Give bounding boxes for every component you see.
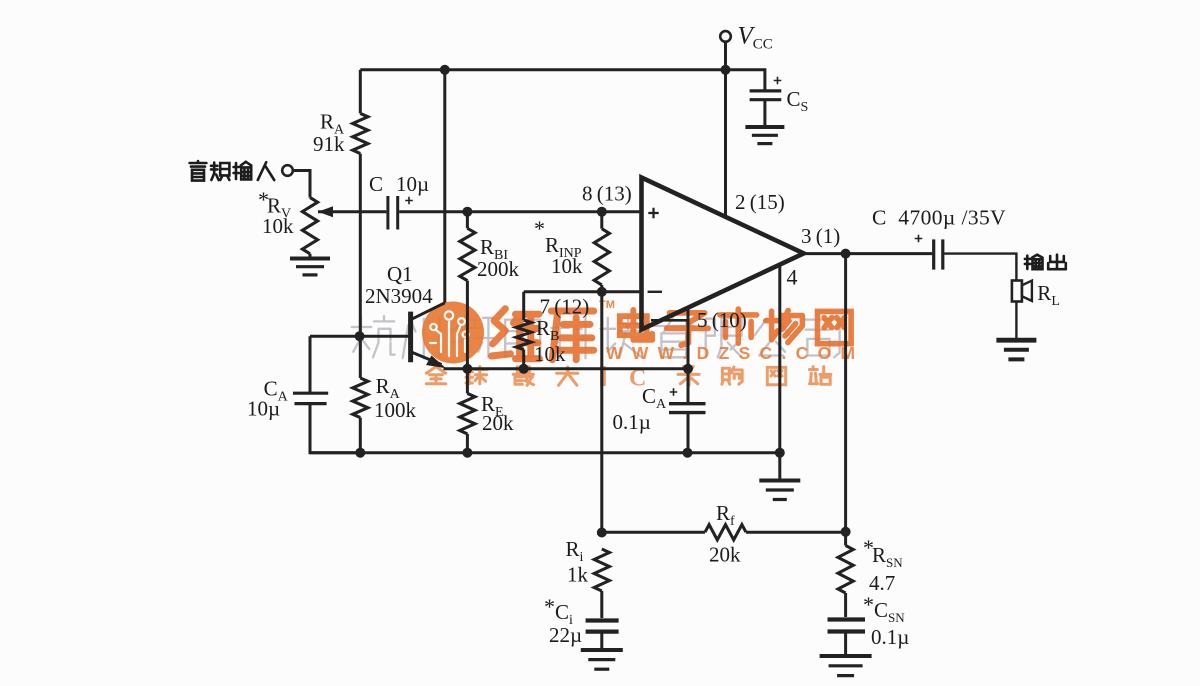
resistor Rf 20k [705,525,746,540]
junction pin4 ground bus [775,448,785,458]
op-amp + symbol [648,208,658,218]
svg-text:1k: 1k [567,563,589,587]
transistor Q1 collector column [443,70,446,303]
svg-text:2 (15): 2 (15) [735,190,785,214]
Vcc terminal [720,31,731,42]
wire pot to ground [309,254,312,259]
svg-text:WWW.DZSC.COM: WWW.DZSC.COM [606,343,864,363]
junction CA0.1 ground bus [683,448,693,458]
feedback column [844,254,847,546]
resistor Rf wire right [746,531,846,534]
wire CA0.1 to ground bus [687,413,690,453]
junction RA100k ground bus [355,448,365,458]
ground Ci [581,648,623,652]
svg-text:20k: 20k [482,411,514,435]
svg-text:C 4700µ /35V: C 4700µ /35V [872,206,1006,230]
resistor RE column [466,369,469,394]
junction RINP top [597,207,607,217]
svg-text:10k: 10k [551,254,583,278]
wire cap to op-amp + input [399,210,641,213]
wire emitter bus [444,367,689,370]
ground CSN [820,654,872,658]
svg-text:5 (10): 5 (10) [697,308,747,332]
svg-text:20k: 20k [709,543,741,567]
ground CS [745,125,784,129]
input terminal circle [282,165,293,176]
svg-text:4: 4 [787,265,798,290]
svg-text:100k: 100k [374,398,417,422]
watermark slogan row [426,366,831,392]
wire RA91k column [359,70,362,114]
wire Vcc to pin2 [724,42,727,217]
wire CA10u branch down [309,336,312,392]
label audio input [190,161,207,181]
ground speaker [996,338,1036,343]
svg-text:0.1µ: 0.1µ [871,625,909,649]
capacitor CS plates [750,89,782,92]
wire RB bottom [522,350,525,369]
transistor Q1 2N3904 [412,303,444,319]
speaker RL [1012,281,1022,302]
svg-text:10µ: 10µ [396,172,429,196]
svg-text:Q1: Q1 [387,262,413,286]
wire inverting input [524,290,642,293]
wiper arrow [318,206,333,217]
wire Ri to Ci [600,591,603,618]
ground main [759,479,800,483]
resistor RINP column [600,212,603,229]
svg-text:200k: 200k [477,257,520,281]
pin 5 wire [687,308,690,402]
svg-text:0.1µ: 0.1µ [613,410,651,434]
wire RINP bottom / inverting column [600,285,603,533]
resistor RE 20k [460,393,475,434]
junction inverting input node [597,287,607,297]
pin 5 stub [651,319,688,322]
junction Vcc top bus [721,65,731,75]
output wire from op-amp [804,252,933,255]
svg-text:C: C [369,172,383,196]
junction feedback node [841,527,851,537]
resistor RBI column [466,212,469,229]
svg-text:3 (1): 3 (1) [801,224,840,248]
svg-text:10k: 10k [534,342,566,366]
wire RA91k to base node [359,154,362,378]
ground pot [290,257,330,261]
wire CS branch [726,70,765,90]
wire CSN to ground [844,632,847,655]
resistor RSN 4.7 [838,546,853,594]
capacitor C 4700u plates [932,239,935,269]
wire signal bus (+ input) [318,210,386,213]
resistor RB 10k [516,320,531,350]
wire RSN to CSN [844,593,847,617]
svg-text:*: * [534,216,545,241]
resistor RA 100k [353,378,368,418]
ground main stub [778,453,781,480]
pin 4 wire [778,265,781,453]
junction top wire / collector [440,65,450,75]
svg-text:*: * [544,594,555,619]
capacitor CA 10u plates [293,392,328,395]
wire ground bus [310,451,780,454]
svg-text:10µ: 10µ [247,397,280,421]
wire top supply bus [360,68,725,71]
wire CA10u to ground bus [310,404,360,453]
junction RB emitter wire [519,364,529,374]
svg-text:8 (13): 8 (13) [582,182,632,206]
wire CS to ground [763,100,766,127]
label output [1025,255,1043,270]
wire RBI bottom [466,281,469,369]
capacitor CA 0.1u plates [669,402,706,405]
wire RA100k to ground bus [359,418,362,453]
junction Ri top [597,528,607,538]
potentiometer RV 10k [302,198,317,254]
svg-text:91k: 91k [313,132,345,156]
junction output node [841,249,851,259]
watermark gray company text [352,316,840,359]
capacitor CSN 0.1u plates [828,617,866,621]
resistor RA 91k [353,113,368,153]
wire speaker to ground [1015,302,1017,340]
capacitor C 10u plates [386,196,389,230]
svg-text:*: * [863,592,874,617]
svg-text:22µ: 22µ [549,623,582,647]
junction RBI top [462,207,472,217]
resistor RBI 200k [460,228,475,280]
junction RBI emitter wire [462,364,472,374]
svg-text:10k: 10k [262,214,294,238]
resistor RINP 10k [594,229,609,285]
op-amp U1 triangle [642,178,804,330]
wire cap to speaker [944,254,1016,281]
op-amp - symbol [648,291,662,293]
svg-text:2N3904: 2N3904 [365,284,433,308]
resistor Ri 1k [594,549,609,591]
wire input to potentiometer [293,171,310,198]
wire Ci to ground [600,632,603,649]
watermark big orange text weiku [492,309,852,360]
resistor Rf wire left [602,531,705,534]
junction RE ground bus [462,448,472,458]
junction pin5 emitter bus [683,364,693,374]
wire RB column [522,292,525,320]
watermark logo circle [422,302,484,364]
junction base / RA divider [355,331,365,341]
wire base node [310,335,411,338]
wire RE to ground bus [466,434,469,453]
capacitor Ci 22u plates [586,618,619,622]
